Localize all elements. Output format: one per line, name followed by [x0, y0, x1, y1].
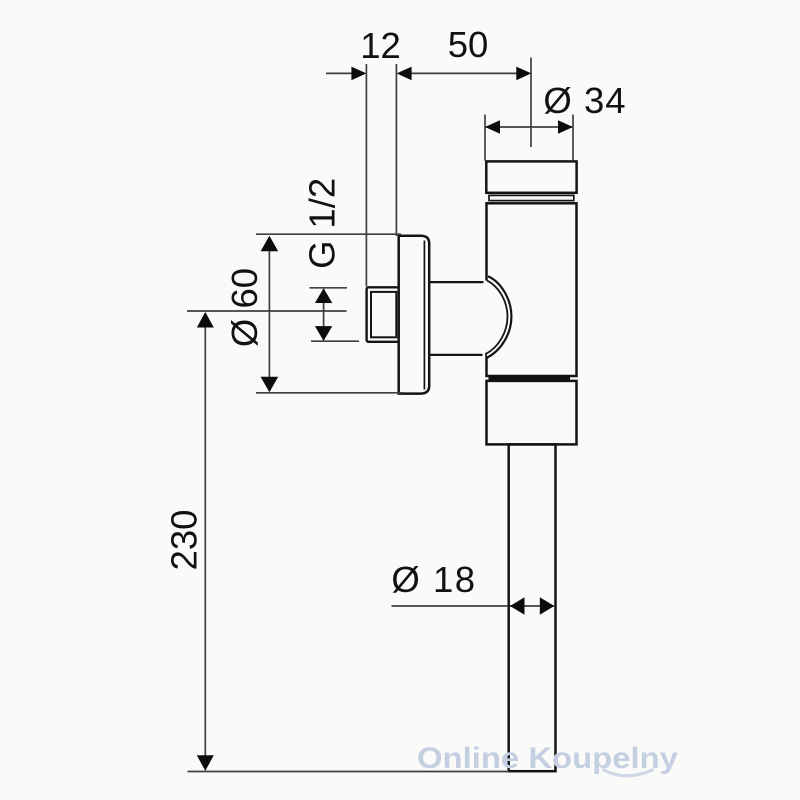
- inlet nut G 1/2 inner: [371, 292, 396, 337]
- valve body lower: [487, 381, 577, 445]
- arrow dim12/50 middle: [397, 67, 412, 81]
- arrow dim50 right: [516, 67, 531, 81]
- union dome cover: [484, 281, 494, 355]
- svg-text:1/2: 1/2: [302, 178, 343, 229]
- dim d34 extension line left: [484, 115, 486, 161]
- dim G12 line: [323, 289, 325, 340]
- dim 50 extension line right: [530, 58, 532, 148]
- valve cap: [486, 161, 576, 192]
- watermark swoosh: [604, 770, 653, 776]
- dim 230 extension line top: [187, 310, 347, 312]
- inlet pipe bottom edge: [429, 354, 483, 356]
- union dome outer arc: [487, 277, 512, 358]
- svg-text:Ø 18: Ø 18: [391, 559, 476, 600]
- wall flange: [399, 236, 430, 394]
- svg-text:Ø 60: Ø 60: [224, 268, 265, 347]
- dim d34 extension line right: [572, 115, 574, 161]
- svg-text:G: G: [302, 240, 343, 268]
- dim 12 extension line right: [395, 64, 397, 236]
- dim G12 extension bottom: [311, 340, 359, 342]
- dim d18 leader: [392, 605, 509, 607]
- dim 230 extension line bottom: [188, 771, 510, 773]
- dim d34 line: [486, 126, 572, 128]
- inlet pipe top edge: [429, 281, 485, 283]
- dim d60 line: [268, 237, 270, 391]
- dim 50 line: [411, 72, 518, 74]
- svg-text:Ø 34: Ø 34: [543, 80, 626, 121]
- svg-text:12: 12: [360, 25, 401, 66]
- arrow 230 top: [197, 312, 214, 328]
- valve body upper: [487, 203, 577, 376]
- dim d60 extension line bottom: [256, 392, 403, 394]
- dim d18 line inner: [510, 605, 554, 607]
- arrow d34 left: [485, 120, 500, 134]
- valve neck band: [489, 195, 574, 200]
- valve divider band: [489, 376, 571, 380]
- wall flange inner edge: [423, 241, 425, 390]
- arrow G12 up: [315, 288, 332, 303]
- arrow G12 down: [315, 326, 332, 341]
- union dome inner arc: [486, 281, 508, 354]
- arrow d34 right: [558, 120, 573, 134]
- arrow d18 right: [540, 597, 555, 614]
- arrow 230 bottom: [197, 755, 214, 771]
- svg-text:Online Koupelny: Online Koupelny: [417, 742, 678, 775]
- dim 12 extension line left: [365, 64, 367, 287]
- arrow d60 bottom: [261, 377, 279, 393]
- arrow dim12 left: [351, 67, 366, 81]
- arrow d18 left: [510, 597, 525, 614]
- dim d60 extension line top: [256, 233, 401, 235]
- dim 12 leader left: [326, 72, 352, 74]
- inlet nut G 1/2 outer: [367, 287, 401, 342]
- dim 230 line: [204, 313, 206, 770]
- arrow d60 top: [261, 236, 279, 252]
- dim G12 extension top: [310, 287, 348, 289]
- svg-text:50: 50: [448, 24, 489, 65]
- outlet pipe: [509, 444, 556, 771]
- svg-text:230: 230: [164, 510, 205, 571]
